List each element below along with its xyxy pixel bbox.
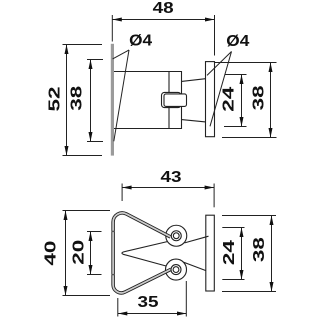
- dim 24 bottom-view extension top: [222, 227, 244, 229]
- roller top pin: [173, 233, 179, 239]
- body top edge: [114, 71, 182, 73]
- dim 20 extension top: [87, 231, 102, 233]
- svg-text:Ø4: Ø4: [129, 33, 152, 50]
- svg-text:24: 24: [221, 240, 238, 265]
- svg-text:38: 38: [251, 237, 268, 262]
- dim 24 bottom-view extension bottom: [222, 279, 244, 281]
- dim 38 top-view-right extension bottom: [222, 137, 277, 139]
- dim 52 extension bottom: [63, 155, 103, 157]
- dim 38 left extension bottom: [87, 141, 103, 143]
- dim 52 extension top: [63, 44, 103, 46]
- leader Ø4 left to top hole: [113, 50, 129, 59]
- body divider: [168, 71, 170, 129]
- dim 24 top-view extension top: [225, 74, 247, 76]
- svg-text:35: 35: [138, 294, 159, 311]
- roller bottom pin: [173, 267, 179, 273]
- svg-text:Ø4: Ø4: [226, 33, 249, 50]
- wire tick bottom: [112, 274, 115, 275]
- dim 38 left line: [90, 60, 92, 142]
- roller bottom outer: [166, 259, 187, 280]
- dim 38 bottom-view extension bottom: [222, 291, 276, 293]
- funnel bottom edge: [182, 120, 206, 122]
- dim 35 extension right: [185, 281, 187, 317]
- dim 40 line: [65, 211, 67, 296]
- roller bottom middle: [171, 265, 181, 275]
- end cap edge: [181, 71, 183, 129]
- svg-text:20: 20: [70, 240, 87, 265]
- svg-text:40: 40: [42, 240, 59, 265]
- svg-text:24: 24: [221, 87, 238, 112]
- leader Ø4 left to bottom hole: [114, 50, 129, 141]
- dim 38 bottom-view line: [271, 216, 273, 292]
- dim 35 line: [118, 313, 187, 315]
- dim 52 line: [66, 45, 68, 156]
- funnel top edge: [182, 79, 206, 82]
- svg-text:52: 52: [46, 86, 63, 111]
- dim 24 top-view line: [241, 75, 243, 127]
- leader Ø4 right to bottom hole: [210, 52, 232, 127]
- dim 48 line: [112, 19, 214, 21]
- dim 43 extension right: [213, 184, 215, 208]
- wedge edge top to plate: [185, 236, 209, 243]
- svg-text:38: 38: [68, 86, 85, 111]
- dim 38 top-view-right line: [270, 63, 272, 138]
- wall plate (left, gray section): [111, 44, 114, 156]
- wire tick top: [112, 231, 115, 232]
- dim 40 extension bottom: [63, 295, 111, 297]
- dim 24 bottom-view line: [241, 228, 243, 280]
- wedge striker outline: [122, 241, 172, 268]
- dim 48 extension right: [214, 15, 216, 56]
- dim 38 left extension top: [87, 59, 103, 61]
- dim 38 top-view-right extension top: [215, 62, 277, 64]
- dim 20 line: [90, 232, 92, 275]
- roller top middle: [171, 231, 181, 241]
- body bottom edge: [114, 128, 182, 130]
- leader Ø4 right to top hole: [207, 52, 232, 76]
- dim 43 extension left: [121, 184, 123, 202]
- keeper plate (bottom view): [206, 215, 215, 291]
- wedge edge bottom to plate: [183, 262, 206, 271]
- dim 43 line: [122, 187, 214, 189]
- dim 35 extension left: [117, 298, 119, 317]
- svg-text:48: 48: [153, 0, 174, 17]
- latch tongue: [164, 94, 187, 107]
- latch bracket: [162, 92, 182, 107]
- roller top outer: [166, 225, 187, 246]
- dim 24 top-view extension bottom: [224, 126, 247, 128]
- wire bail inner gray: [113, 213, 171, 293]
- keeper plate (right): [206, 62, 215, 137]
- dim 38 bottom-view extension top: [222, 215, 276, 217]
- dim 40 extension top: [63, 210, 111, 212]
- wire bail outer stroke: [113, 213, 171, 293]
- svg-text:38: 38: [251, 85, 268, 110]
- dim 48 extension left: [111, 15, 113, 42]
- dim 20 extension bottom: [87, 274, 102, 276]
- svg-text:43: 43: [161, 169, 182, 186]
- body fill: [114, 72, 182, 129]
